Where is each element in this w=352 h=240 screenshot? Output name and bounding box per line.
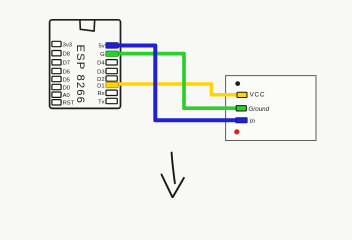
pin Tx box bbox=[106, 98, 117, 103]
mounting hole (dark) on module bbox=[235, 81, 240, 86]
pin D0 box bbox=[52, 84, 61, 89]
svg-text:D2: D2 bbox=[97, 77, 104, 83]
svg-text:D4: D4 bbox=[97, 61, 105, 67]
microcontroller board U1 (ESP 8266) outline bbox=[50, 20, 121, 109]
arrow shaft (down arrow) bbox=[172, 153, 175, 184]
pin D1 pad (yellow) bbox=[106, 82, 118, 87]
pin D8 box bbox=[52, 51, 61, 56]
pin D3 box bbox=[106, 68, 117, 73]
svg-text:Tx: Tx bbox=[98, 99, 105, 105]
pin RST box bbox=[52, 100, 61, 105]
USB notch on board top bbox=[80, 20, 95, 32]
module In pad (blue) bbox=[236, 118, 247, 123]
svg-text:D0: D0 bbox=[63, 85, 70, 91]
svg-text:Rx: Rx bbox=[98, 91, 105, 97]
wire yellow: D1 to VCC bbox=[116, 84, 239, 95]
module Ground pad (green) bbox=[236, 106, 246, 111]
wire green: G to Ground bbox=[116, 54, 242, 109]
pin G pad (green) bbox=[106, 51, 118, 56]
pin A0 box bbox=[52, 92, 61, 97]
svg-text:D1: D1 bbox=[97, 83, 104, 89]
svg-text:5v: 5v bbox=[98, 44, 104, 50]
sensor module right panel outline bbox=[226, 76, 316, 141]
svg-text:3v3: 3v3 bbox=[63, 42, 72, 48]
pin D6 box bbox=[52, 68, 61, 73]
indicator LED (red) on module bbox=[234, 129, 239, 134]
wire blue: 5v to In bbox=[116, 46, 242, 121]
pin Rx box bbox=[106, 90, 117, 95]
pin D7 box bbox=[52, 60, 61, 65]
svg-text:D8: D8 bbox=[63, 52, 70, 58]
svg-text:A0: A0 bbox=[63, 93, 70, 99]
svg-text:In: In bbox=[250, 118, 256, 125]
arrow head left stroke bbox=[162, 175, 173, 197]
svg-text:VCC: VCC bbox=[250, 92, 266, 99]
arrow head right stroke bbox=[173, 178, 184, 198]
pin D4 box bbox=[106, 60, 117, 65]
pin 3v3 box bbox=[52, 41, 61, 46]
module VCC pad (yellow) bbox=[237, 92, 247, 97]
pin D2 box bbox=[106, 76, 117, 81]
pin D5 box bbox=[52, 76, 61, 81]
svg-text:D3: D3 bbox=[97, 69, 104, 75]
pin 5v pad (blue) bbox=[106, 43, 118, 49]
svg-text:D5: D5 bbox=[63, 77, 70, 83]
svg-text:ESP 8266: ESP 8266 bbox=[74, 45, 86, 104]
svg-text:G: G bbox=[100, 52, 105, 58]
svg-text:RST: RST bbox=[63, 101, 75, 107]
svg-text:D6: D6 bbox=[63, 69, 70, 75]
svg-text:D7: D7 bbox=[63, 61, 70, 67]
svg-text:Ground: Ground bbox=[248, 106, 269, 113]
